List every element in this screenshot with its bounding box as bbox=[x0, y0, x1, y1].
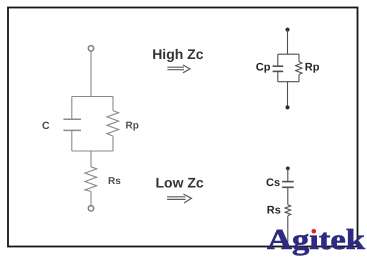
wire: Rs to bottom terminal bbox=[90, 191, 92, 205]
svg-text:Cs: Cs bbox=[266, 177, 280, 189]
label Cs bbox=[266, 177, 280, 189]
svg-text:Cp: Cp bbox=[256, 62, 271, 74]
wire: top terminal to parallel box bbox=[90, 51, 92, 97]
capacitor Cp bbox=[273, 54, 284, 81]
svg-text:Rs: Rs bbox=[108, 176, 121, 187]
node (bottom, right parallel circuit) bbox=[286, 105, 290, 109]
wire: top rail of parallel box bbox=[72, 96, 113, 98]
node (top, series circuit) bbox=[286, 167, 290, 171]
svg-text:Rp: Rp bbox=[126, 121, 139, 132]
wire: top rail of right box bbox=[278, 53, 299, 55]
logo Agitek bbox=[267, 224, 366, 256]
resistor Rp (left circuit, zigzag) bbox=[107, 97, 119, 152]
terminal (bottom, left circuit) bbox=[88, 206, 93, 211]
label Rp (right circuit) bbox=[305, 62, 320, 74]
wire: bottom rail of right box bbox=[278, 81, 299, 83]
label C bbox=[42, 120, 50, 132]
svg-text:Rp: Rp bbox=[305, 62, 320, 74]
capacitor C (left branch) bbox=[63, 97, 81, 152]
label Low Zc bbox=[156, 175, 204, 191]
arrow (high) bbox=[167, 65, 190, 73]
arrow (low) bbox=[167, 194, 191, 203]
node (top, right parallel circuit) bbox=[286, 28, 290, 32]
logo i-dot (red) bbox=[312, 229, 317, 234]
svg-text:C: C bbox=[42, 120, 50, 132]
capacitor Cs bbox=[282, 182, 294, 188]
label High Zc bbox=[152, 46, 204, 62]
wire: bottom rail of parallel box bbox=[72, 150, 113, 152]
wire: Rs down behind logo bbox=[287, 216, 289, 243]
svg-text:High Zc: High Zc bbox=[152, 46, 204, 62]
label Rp (left circuit) bbox=[126, 121, 139, 132]
wire: node to Cs bbox=[287, 168, 289, 181]
resistor Rs (series circuit, zigzag) bbox=[285, 205, 291, 216]
svg-text:Rs: Rs bbox=[267, 205, 281, 217]
wire: Cs to Rs bbox=[287, 187, 289, 204]
wire: bottom rail down to Rs bbox=[90, 151, 92, 167]
terminal (top, left circuit) bbox=[88, 46, 93, 51]
resistor Rs (left circuit, zigzag) bbox=[85, 167, 97, 192]
svg-text:Agıtek: Agıtek bbox=[267, 224, 366, 256]
wire: top node to box bbox=[287, 30, 289, 55]
resistor Rp (right circuit, zigzag) bbox=[296, 54, 302, 81]
label Rs (left circuit) bbox=[108, 176, 121, 187]
wire: box to bottom node bbox=[287, 82, 289, 108]
label Cp bbox=[256, 62, 271, 74]
svg-text:Low Zc: Low Zc bbox=[156, 175, 204, 191]
label Rs (series circuit) bbox=[267, 205, 281, 217]
